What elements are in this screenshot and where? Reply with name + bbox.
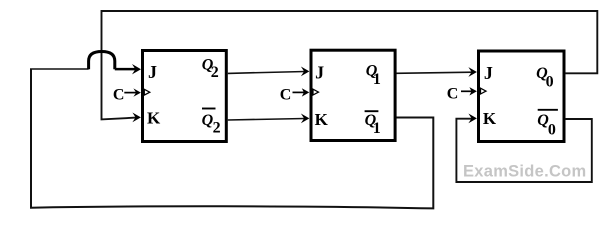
- svg-text:C: C: [447, 85, 459, 102]
- clock triangle U1: [144, 89, 150, 95]
- clock C input U3: [461, 90, 473, 92]
- arrowhead into K of U3: [468, 114, 477, 124]
- svg-text:J: J: [148, 62, 157, 82]
- wire thick segment into J of U1: [115, 68, 136, 71]
- wire Q0bar loop to K of U3: [456, 119, 591, 182]
- clock C input U2: [293, 91, 306, 93]
- svg-text:K: K: [315, 110, 329, 129]
- wire hop over K-feed vertical: [89, 52, 115, 70]
- svg-text:K: K: [147, 109, 161, 128]
- svg-text:J: J: [315, 63, 324, 83]
- svg-text:1: 1: [373, 120, 381, 137]
- arrowhead into J of U3: [468, 67, 477, 77]
- flip-flop U3 box: [479, 51, 565, 142]
- svg-text:J: J: [484, 63, 493, 83]
- svg-text:0: 0: [548, 122, 556, 139]
- clock C input U1: [124, 92, 136, 94]
- svg-text:ExamSide.Com: ExamSide.Com: [463, 162, 587, 180]
- arrowhead into J of U2: [301, 67, 310, 77]
- label Q0bar U3: [538, 109, 558, 111]
- svg-text:1: 1: [373, 71, 381, 88]
- wire J1 horizontal run: [30, 68, 89, 70]
- wire Q1bar feedback: down, bottom, up to J of U1: [31, 70, 433, 209]
- svg-text:0: 0: [546, 74, 554, 91]
- svg-text:2: 2: [211, 64, 219, 81]
- wire Q2bar to K of U2: [228, 119, 305, 121]
- svg-text:2: 2: [213, 119, 221, 136]
- wire Q2 to J of U2: [228, 72, 305, 74]
- flip-flop U1 box: [143, 51, 227, 142]
- arrowhead into K of U2: [301, 114, 310, 124]
- label Q2bar U1: [202, 108, 216, 110]
- arrowhead into K of U1: [132, 113, 141, 123]
- label Q1bar U2: [365, 110, 379, 112]
- svg-text:K: K: [483, 109, 497, 128]
- clock triangle U3: [481, 88, 487, 94]
- svg-text:C: C: [113, 86, 125, 103]
- wire Q0 feedback: right, top, down to K of U1: [102, 11, 598, 119]
- clock triangle U2: [313, 89, 319, 95]
- svg-text:C: C: [280, 86, 292, 103]
- wire Q1 to J of U3: [396, 72, 472, 73]
- arrowhead into J of U1: [132, 64, 141, 74]
- flip-flop U2 box: [311, 50, 395, 140]
